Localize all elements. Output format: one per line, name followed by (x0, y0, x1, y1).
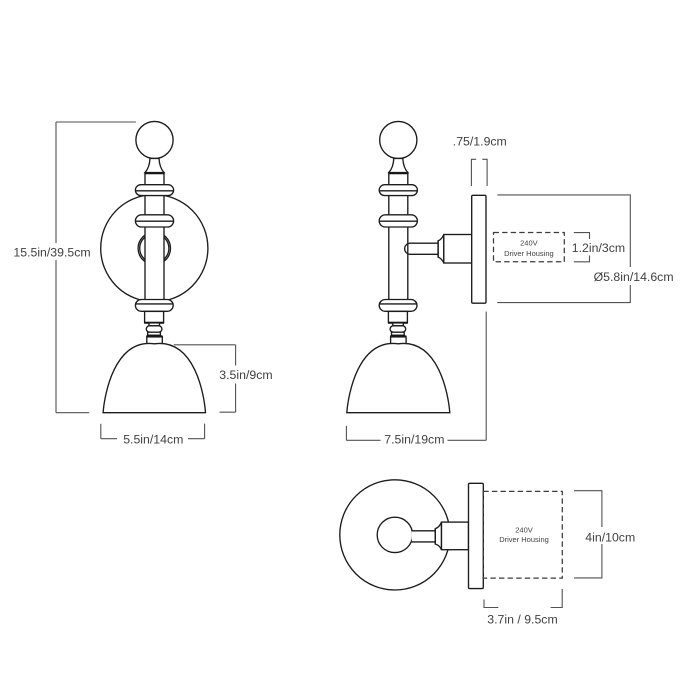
knuckle bun front (146, 326, 162, 332)
bottom disc capsule front (135, 300, 173, 312)
knuckle ring side (392, 332, 405, 335)
knuckle stem front (149, 323, 160, 326)
svg-text:15.5in/39.5cm: 15.5in/39.5cm (13, 245, 90, 259)
dimension 5.5in/14cm (101, 424, 205, 448)
knuckle bun side (390, 326, 406, 332)
svg-text:3.7in / 9.5cm: 3.7in / 9.5cm (487, 613, 557, 627)
shade socket side (391, 337, 407, 345)
svg-text:.75/1.9cm: .75/1.9cm (453, 134, 507, 148)
dimension 7.5in/19cm (346, 312, 486, 449)
dimension 3.5in/9cm (174, 345, 279, 412)
backplate side (472, 195, 486, 303)
svg-text:5.5in/14cm: 5.5in/14cm (123, 433, 183, 447)
glass disc (front circle) (101, 195, 208, 302)
rod top bold edge (145, 172, 164, 174)
finial neck front (145, 158, 164, 172)
arm cone side (438, 235, 444, 264)
finial ball front (136, 121, 173, 158)
finial neck side (389, 158, 408, 172)
knuckle ring front (148, 332, 161, 335)
middle disc capsule side (379, 215, 417, 227)
lower cylinder side (388, 311, 407, 322)
svg-text:240V: 240V (520, 238, 538, 247)
finial ball side (380, 121, 417, 158)
lower cylinder front (145, 311, 164, 322)
arm bottom (412, 531, 435, 541)
svg-text:Ø5.8in/14.6cm: Ø5.8in/14.6cm (594, 270, 674, 284)
svg-text:Driver Housing: Driver Housing (504, 249, 554, 258)
svg-text:240V: 240V (515, 525, 533, 534)
mount block bottom (442, 522, 469, 550)
stem rod front (145, 173, 164, 312)
backplate bottom (469, 483, 484, 588)
svg-text:4in/10cm: 4in/10cm (585, 530, 635, 544)
shade dome front (103, 343, 205, 412)
knuckle stem side (393, 323, 404, 326)
svg-text:7.5in/19cm: 7.5in/19cm (384, 433, 444, 447)
dimension 1.2in/3cm (570, 233, 626, 262)
upper disc capsule side (379, 185, 417, 196)
driver housing dashed box bottom (483, 491, 562, 578)
dimension .75/1.9cm (453, 134, 507, 186)
upper disc capsule front (135, 185, 173, 196)
middle disc capsule front (135, 215, 173, 227)
svg-text:3.5in/9cm: 3.5in/9cm (219, 368, 272, 382)
mount block side (444, 235, 472, 264)
dimension 3.7in / 9.5cm (484, 589, 562, 627)
bottom disc capsule side (379, 300, 417, 312)
stem rod side (389, 173, 408, 312)
dimension diameter 5.8in/14.6cm (497, 195, 675, 303)
dimension 4in/10cm (574, 491, 635, 578)
svg-text:1.2in/3cm: 1.2in/3cm (572, 241, 625, 255)
ball circle bottom (377, 517, 412, 552)
inner socket circle inner (140, 234, 169, 263)
driver housing dashed box side (494, 233, 565, 262)
shade socket front (147, 337, 163, 345)
dimension 15.5in/39.5cm (10, 122, 136, 413)
inner socket circle outer (138, 232, 170, 264)
arm side (405, 243, 438, 254)
shade outer circle bottom (340, 480, 450, 590)
arm cone bottom (435, 522, 441, 550)
svg-text:Driver Housing: Driver Housing (499, 535, 549, 544)
shade dome side (347, 343, 450, 412)
